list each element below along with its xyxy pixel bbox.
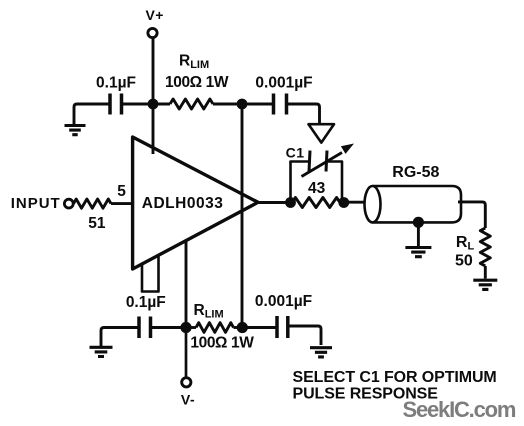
- svg-text:RLIM: RLIM: [179, 53, 209, 72]
- svg-text:SELECT C1 FOR OPTIMUM: SELECT C1 FOR OPTIMUM: [293, 369, 497, 386]
- vertical rail: top junction to bottom junction: [241, 104, 244, 328]
- junction: V+ rail / top RLIM: [148, 99, 159, 110]
- wire: junction to bottom 0.001uF: [242, 326, 276, 329]
- svg-text:51: 51: [88, 215, 106, 232]
- capacitor C 0.001uF (top): [255, 75, 312, 115]
- svg-text:50: 50: [455, 253, 473, 270]
- resistor RLIM 100ohm 1W (top): [153, 53, 242, 109]
- svg-text:PULSE RESPONSE: PULSE RESPONSE: [293, 386, 439, 403]
- svg-text:C1: C1: [286, 145, 305, 161]
- svg-text:V+: V+: [145, 7, 164, 23]
- capacitor C 0.1uF (top): [96, 75, 153, 115]
- svg-text:0.1µF: 0.1µF: [96, 75, 136, 92]
- resistor RL 50 (load): [455, 228, 490, 279]
- resistor 43 (output series): [292, 180, 340, 208]
- svg-text:INPUT: INPUT: [11, 195, 61, 212]
- junction: bottom rail / vertical rail: [237, 322, 248, 333]
- junction: coax shield tap: [413, 217, 424, 228]
- wire: node to coax: [344, 201, 366, 204]
- ground (bottom left): [90, 347, 113, 356]
- svg-text:RL: RL: [456, 234, 475, 253]
- wire: op-amp output to node: [256, 201, 291, 204]
- variable capacitor C1 across 43 ohm: [286, 144, 354, 203]
- capacitor C 0.001uF (bottom): [255, 293, 312, 338]
- svg-text:43: 43: [308, 180, 326, 197]
- op-amp U1 ADLH0033: [133, 137, 258, 269]
- wire: top 0.001uF right plate, corner down to arrow: [287, 104, 320, 124]
- wire: V+ terminal down through top rail junction into op-amp top edge: [152, 38, 155, 154]
- resistor RLIM 100ohm 1W (bottom): [186, 302, 254, 352]
- wire: op-amp V- pin to bottom junction: [185, 241, 188, 328]
- svg-text:100Ω 1W: 100Ω 1W: [190, 335, 254, 352]
- wire: bottom 0.001uF, corner down to ground: [288, 326, 321, 345]
- svg-text:0.001µF: 0.001µF: [255, 75, 312, 92]
- coax cable RG-58: [365, 164, 462, 223]
- svg-text:RLIM: RLIM: [194, 302, 224, 321]
- svg-text:V-: V-: [181, 392, 195, 408]
- wire: bottom rail left segment, corner down to ground: [101, 328, 139, 347]
- INPUT terminal: [11, 195, 74, 212]
- ground (coax shield): [405, 248, 431, 257]
- wire: top rail left segment, corner down to ground: [74, 104, 110, 125]
- power terminal V+: [145, 7, 164, 38]
- power terminal V-: [181, 328, 195, 408]
- svg-text:0.001µF: 0.001µF: [255, 293, 312, 310]
- note: SELECT C1 FOR OPTIMUM PULSE RESPONSE: [293, 369, 497, 402]
- junction: output node left: [285, 197, 296, 208]
- capacitor C 0.1uF (bottom): [126, 294, 186, 338]
- wire: junction to top 0.001uF: [242, 103, 274, 106]
- junction: output node right: [338, 197, 349, 208]
- svg-text:ADLH0033: ADLH0033: [142, 195, 224, 212]
- svg-text:5: 5: [117, 183, 126, 200]
- wire: shield to ground: [417, 222, 420, 246]
- svg-text:RG-58: RG-58: [392, 164, 439, 181]
- op-amp case tab pin: [142, 256, 159, 292]
- resistor 51 (input): [74, 199, 112, 232]
- ground (RL): [473, 280, 497, 289]
- wire: input resistor to op-amp: [111, 202, 133, 205]
- junction: top rail / vertical rail: [237, 99, 248, 110]
- svg-text:0.1µF: 0.1µF: [126, 294, 166, 311]
- arrow marker: open triangle pointing down at output node: [309, 124, 335, 142]
- junction: V- rail / bottom RLIM: [180, 322, 191, 333]
- svg-text:100Ω 1W: 100Ω 1W: [165, 74, 229, 91]
- ground (top left): [65, 126, 86, 135]
- wire: coax output, corner down to RL: [458, 202, 485, 228]
- ground (bottom center): [310, 348, 332, 357]
